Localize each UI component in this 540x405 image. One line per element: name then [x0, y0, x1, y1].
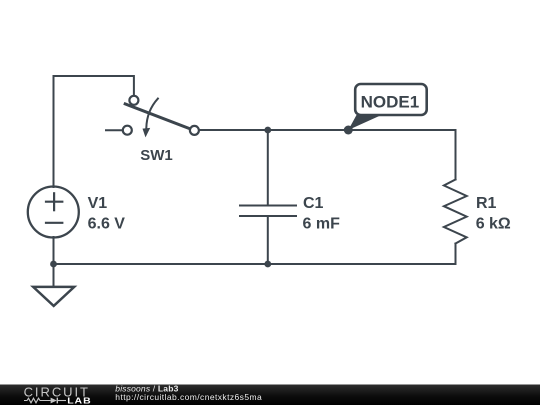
svg-text:V1: V1 [88, 195, 108, 212]
label SW1 [140, 147, 173, 164]
footer title text [115, 384, 262, 403]
svg-text:6.6 V: 6.6 V [88, 215, 126, 232]
node junction dot at V1/ground [50, 261, 57, 268]
svg-text:C1: C1 [303, 195, 324, 212]
wire V1 bottom to rail [53, 237, 55, 264]
wire bottom rail [54, 263, 456, 265]
capacitor C1 [240, 206, 296, 217]
svg-text:NODE1: NODE1 [361, 92, 420, 111]
label V1 value [88, 195, 126, 232]
wire top-left from V1 to switch [54, 76, 134, 187]
label R1 value [476, 195, 511, 232]
node junction dot at C1 bottom [264, 261, 271, 268]
svg-text:6 mF: 6 mF [303, 215, 341, 232]
CircuitLab logo [24, 385, 91, 405]
footer bar [0, 385, 540, 405]
label C1 value [303, 195, 341, 232]
node NODE1 dot [344, 126, 353, 135]
switch SW1 [106, 96, 199, 138]
ground [33, 287, 74, 306]
wire capacitor branch bottom [267, 217, 269, 265]
svg-text:SW1: SW1 [140, 147, 173, 164]
voltage source V1 [28, 187, 79, 238]
wire right branch bottom [455, 244, 457, 265]
node NODE1 callout [348, 84, 426, 130]
svg-text:R1: R1 [476, 195, 497, 212]
svg-text:LAB: LAB [67, 396, 91, 405]
svg-text:http://circuitlab.com/cnetxktz: http://circuitlab.com/cnetxktz6s5ma [115, 392, 262, 402]
wire right branch top [455, 130, 457, 180]
svg-text:6 kΩ: 6 kΩ [476, 215, 511, 232]
wire main top node [200, 129, 456, 131]
wire capacitor branch top [267, 130, 269, 205]
resistor R1 [444, 180, 467, 244]
wire to ground [53, 264, 55, 286]
node junction dot at C1 top [264, 127, 271, 134]
